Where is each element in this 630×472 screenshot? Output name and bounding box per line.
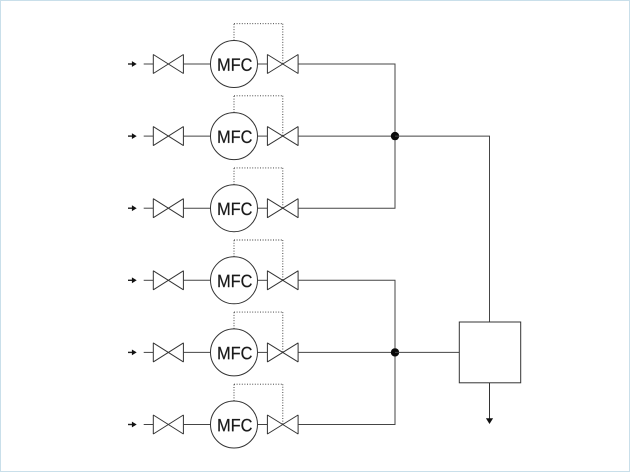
control line MFC6 to valve V6B (dotted)	[234, 384, 283, 424]
wire valve V2B to manifold	[298, 135, 395, 137]
wire upper manifold to mix box top	[395, 136, 490, 322]
valve V4B (MFC-controlled)	[267, 270, 298, 289]
wire inlet to valve V2A	[143, 135, 153, 137]
input arrow 5	[128, 349, 137, 355]
valve V4A (manual shutoff)	[153, 270, 183, 289]
input arrow 6	[128, 421, 137, 427]
wire MFC5 to valve V5B	[257, 351, 267, 353]
control line MFC5 to valve V5B (dotted)	[234, 312, 283, 352]
node lower junction	[390, 348, 398, 356]
wire inlet to valve V1A	[143, 63, 153, 65]
valve V6B (MFC-controlled)	[267, 415, 298, 434]
valve V3A (manual shutoff)	[153, 198, 183, 217]
wire valve V3A to MFC3	[183, 207, 210, 209]
wire inlet to valve V6A	[143, 423, 153, 425]
valve V3B (MFC-controlled)	[267, 198, 298, 217]
valve V6A (manual shutoff)	[153, 415, 183, 434]
wire MFC6 to valve V6B	[257, 423, 267, 425]
control line MFC1 to valve V1B (dotted)	[234, 23, 283, 63]
valve V5B (MFC-controlled)	[267, 342, 298, 361]
wire valve V4B to manifold	[298, 280, 395, 352]
wire valve V3B to manifold	[298, 136, 395, 208]
mass flow controller MFC4	[210, 256, 257, 303]
wire inlet to valve V3A	[143, 207, 153, 209]
valve V1B (MFC-controlled)	[267, 54, 298, 73]
outlet arrow	[485, 418, 492, 424]
wire inlet to valve V5A	[143, 351, 153, 353]
valve V1A (manual shutoff)	[153, 54, 183, 73]
wire valve V4A to MFC4	[183, 279, 210, 281]
mass flow controller MFC1	[210, 40, 257, 87]
wire valve V1B to manifold	[298, 64, 395, 136]
input arrow 1	[128, 61, 137, 67]
control line MFC3 to valve V3B (dotted)	[234, 167, 283, 207]
control line MFC2 to valve V2B (dotted)	[234, 95, 283, 135]
mass flow controller MFC6	[210, 401, 257, 448]
valve V5A (manual shutoff)	[153, 342, 183, 361]
wire valve V1A to MFC1	[183, 63, 210, 65]
wire MFC2 to valve V2B	[257, 135, 267, 137]
mass flow controller MFC3	[210, 184, 257, 231]
mixing box	[459, 322, 520, 383]
wire valve V6A to MFC6	[183, 423, 210, 425]
valve V2A (manual shutoff)	[153, 126, 183, 145]
control line MFC4 to valve V4B (dotted)	[234, 240, 283, 280]
mass flow controller MFC5	[210, 328, 257, 375]
wire lower manifold to mix box left	[395, 351, 459, 353]
input arrow 2	[128, 133, 137, 139]
input arrow 4	[128, 277, 137, 283]
valve V2B (MFC-controlled)	[267, 126, 298, 145]
wire MFC3 to valve V3B	[257, 207, 267, 209]
wire valve V6B to manifold	[298, 352, 395, 424]
wire valve V5A to MFC5	[183, 351, 210, 353]
wire MFC4 to valve V4B	[257, 279, 267, 281]
wire MFC1 to valve V1B	[257, 63, 267, 65]
outlet wire	[488, 382, 490, 418]
wire inlet to valve V4A	[143, 279, 153, 281]
wire valve V2A to MFC2	[183, 135, 210, 137]
mass flow controller MFC2	[210, 112, 257, 159]
input arrow 3	[128, 205, 137, 211]
node upper junction	[390, 131, 398, 139]
wire valve V5B to manifold	[298, 351, 395, 353]
